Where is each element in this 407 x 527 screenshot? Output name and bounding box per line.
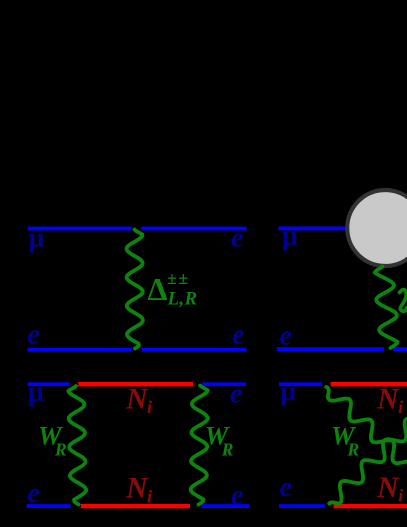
- vertex dot TR bottom: [384, 345, 394, 355]
- vertex dot BL top-left: [70, 380, 79, 389]
- boson wavy from blob (TR): [375, 267, 398, 349]
- wire e segment (BL bottom left): [27, 504, 71, 508]
- vertex dot TL top: [132, 224, 142, 234]
- vertex dot BL bottom-left: [72, 501, 81, 510]
- label N_i (BR top): [376, 383, 403, 417]
- wire e-e bottom line (TL): [28, 348, 247, 352]
- svg-text:μ: μ: [280, 375, 296, 406]
- wire mu-e top line (TL): [28, 227, 247, 231]
- vertex dot BL top-right: [193, 380, 202, 389]
- propagator N_i (BL top): [74, 382, 193, 386]
- svg-text:R: R: [347, 439, 360, 459]
- boson W_R wavy crossed B (BR, up-right): [329, 382, 407, 504]
- svg-text:R: R: [54, 439, 67, 459]
- boson W_R wavy (BL right): [191, 386, 208, 505]
- svg-text:±±: ±±: [167, 268, 190, 288]
- svg-text:μ: μ: [282, 219, 298, 250]
- label Delta±±_LR: [148, 268, 198, 310]
- svg-text:i: i: [147, 486, 152, 506]
- boson W_R wavy (BL left): [69, 386, 87, 505]
- propagator N_i (BL bottom): [75, 504, 190, 508]
- wire mu line into blob (TR): [278, 227, 347, 231]
- effective-vertex blob: [347, 190, 407, 266]
- svg-text:i: i: [398, 397, 403, 417]
- svg-text:e: e: [280, 320, 292, 351]
- boson Delta wavy propagator (TL): [127, 230, 143, 349]
- wire mu segment (BL top): [28, 382, 71, 386]
- boson W_R wavy crossed A (BR, down-right): [326, 387, 407, 509]
- label W_R (BL left): [38, 420, 67, 459]
- svg-text:e: e: [230, 378, 242, 409]
- wire e segment (BL top right): [203, 382, 246, 386]
- label N_i (BR bottom): [376, 472, 403, 506]
- propagator N_i (BR top): [329, 382, 407, 386]
- svg-text:R: R: [221, 439, 234, 459]
- svg-text:i: i: [147, 397, 152, 417]
- wire e-e bottom line (TR): [277, 347, 407, 351]
- wire e segment (BL bottom right): [201, 504, 249, 508]
- vertex dot BR top: [322, 380, 331, 389]
- svg-text:e: e: [27, 320, 39, 351]
- vertex dot BL bottom-right: [192, 501, 201, 510]
- label W_R (BL right): [205, 420, 234, 459]
- wire mu segment (BR top): [279, 382, 323, 386]
- label N_i (BL top): [125, 383, 152, 417]
- svg-text:e: e: [27, 478, 39, 509]
- svg-text:N: N: [376, 472, 400, 504]
- svg-text:e: e: [231, 223, 243, 254]
- svg-text:e: e: [280, 472, 292, 503]
- svg-text:N: N: [125, 473, 149, 505]
- svg-text:Δ: Δ: [148, 271, 168, 307]
- svg-text:N: N: [125, 383, 149, 415]
- label W_R (BR): [331, 420, 359, 459]
- svg-text:i: i: [398, 486, 403, 506]
- vertex dot TL bottom: [132, 345, 142, 355]
- label N_i (BL bottom): [125, 473, 152, 507]
- svg-text:N: N: [376, 383, 400, 415]
- svg-text:e: e: [231, 480, 243, 511]
- svg-text:μ: μ: [29, 222, 45, 253]
- clipped boson label fragment at right edge: [400, 290, 407, 312]
- svg-text:L,R: L,R: [167, 289, 198, 310]
- vertex dot BR bottom: [325, 501, 334, 510]
- wire e segment (BR bottom): [279, 504, 326, 508]
- svg-text:μ: μ: [28, 376, 44, 407]
- svg-text:e: e: [232, 320, 244, 351]
- propagator N_i (BR bottom): [333, 504, 407, 508]
